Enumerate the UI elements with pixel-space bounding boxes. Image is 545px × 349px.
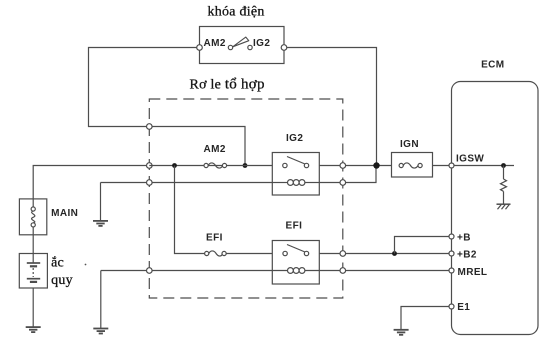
node circle at dashed border (IG2 out) [340,163,346,169]
relay EFI box [272,241,319,285]
svg-text:+B: +B [457,232,471,243]
node circle at dashed border (upper feed) [147,124,153,130]
stray dot [85,264,87,266]
switch contact right [248,45,252,49]
wire upper feed inside relay box [149,127,245,166]
ground (battery) [26,327,41,332]
wire battery to ground [32,288,34,327]
relay IG2 box [272,153,319,196]
ECM box [452,82,539,335]
relay EFI coil [287,268,304,274]
switch blade (ignition switch) [233,37,249,47]
wire IGN fuse to IGSW pin [433,165,452,167]
svg-text:+B2: +B2 [457,249,477,260]
svg-text:MREL: MREL [458,267,488,278]
relay EFI contact right [304,251,308,255]
pin +B [449,234,454,239]
relay EFI switch blade [287,245,305,253]
wire coil return row (ground to IG2 coil to junction) [101,182,150,184]
junction dot EFI branch [172,163,177,168]
relay IG2 contact left [283,163,287,167]
wire EFI fuse to EFI relay [226,253,272,255]
wire MAIN to battery [32,235,34,254]
ground (coil return) [93,183,108,226]
chassis ground (ECM internal) [497,204,511,209]
pin MREL [449,268,454,273]
node circle at dashed border (coil row left) [147,180,153,186]
switch contact left [228,45,232,49]
svg-text:MAIN: MAIN [51,208,78,219]
relay EFI contact left [283,251,287,255]
svg-text:IG2: IG2 [253,38,270,49]
terminal circle ignition switch left [197,45,203,51]
pin +B2 [449,251,454,256]
svg-text:IG2: IG2 [286,133,303,144]
terminal circle ignition switch right [281,45,287,51]
wire +B branch [395,237,452,254]
ground (MREL row) [93,271,108,334]
wire EFI branch vertical [175,166,207,254]
node circle at dashed border (MREL row right) [340,268,346,274]
battery symbol [27,254,40,282]
wire IG2 output to IGN fuse [319,165,391,167]
svg-text:EFI: EFI [206,233,223,244]
wire AM2 row inside relay box [149,165,272,167]
ground (E1) [394,330,409,335]
junction dot resistor tap [501,163,506,168]
battery box [19,254,47,289]
svg-text:AM2: AM2 [204,144,226,155]
svg-text:EFI: EFI [286,221,303,232]
svg-text:IGSW: IGSW [456,154,484,165]
relay IG2 coil [287,180,304,186]
svg-text:E1: E1 [457,302,470,313]
ignition switch box [200,27,285,64]
svg-text:khóa điện: khóa điện [208,5,265,20]
svg-text:ắc: ắc [51,256,64,271]
fuse AM2 [204,163,227,168]
fusible link MAIN symbol [31,199,35,235]
svg-text:Rơ le tổ hợp: Rơ le tổ hợp [190,77,265,93]
svg-text:ECM: ECM [481,60,504,71]
junction dot IGSW node [373,162,379,168]
svg-text:AM2: AM2 [204,38,226,49]
pin IGSW [449,163,454,168]
svg-text:IGN: IGN [400,139,419,150]
relay assembly dashed box [149,99,342,298]
resistor (pull-down) [501,166,507,205]
wire IGSW internal [454,165,514,167]
svg-text:quy: quy [51,273,73,288]
pin E1 [449,304,454,309]
wire E1 to ground [401,307,449,330]
wire MAIN fuse to AM2 row [33,166,149,199]
node circle at dashed border (EFI out) [340,251,346,257]
relay IG2 switch blade [287,157,305,165]
wire ignition switch left to left drop [89,48,200,127]
fuse IGN [399,163,422,168]
fuse IGN box [392,153,433,178]
fusible link MAIN box [19,199,46,235]
node circle at dashed border (MREL row left) [147,268,153,274]
wire ignition switch right to IGSW junction [284,48,377,166]
relay IG2 contact right [304,163,308,167]
node circle at dashed border (coil row right) [340,180,346,186]
wire MREL row (ground to EFI coil to MREL pin) [101,270,150,272]
wire EFI output to +B2 pin [319,253,451,255]
junction dot upper feed to AM2 wire [243,163,248,168]
fuse EFI [205,251,227,256]
junction dot +B branch [392,251,397,256]
node circle at dashed border (AM2 row left) [147,163,153,169]
